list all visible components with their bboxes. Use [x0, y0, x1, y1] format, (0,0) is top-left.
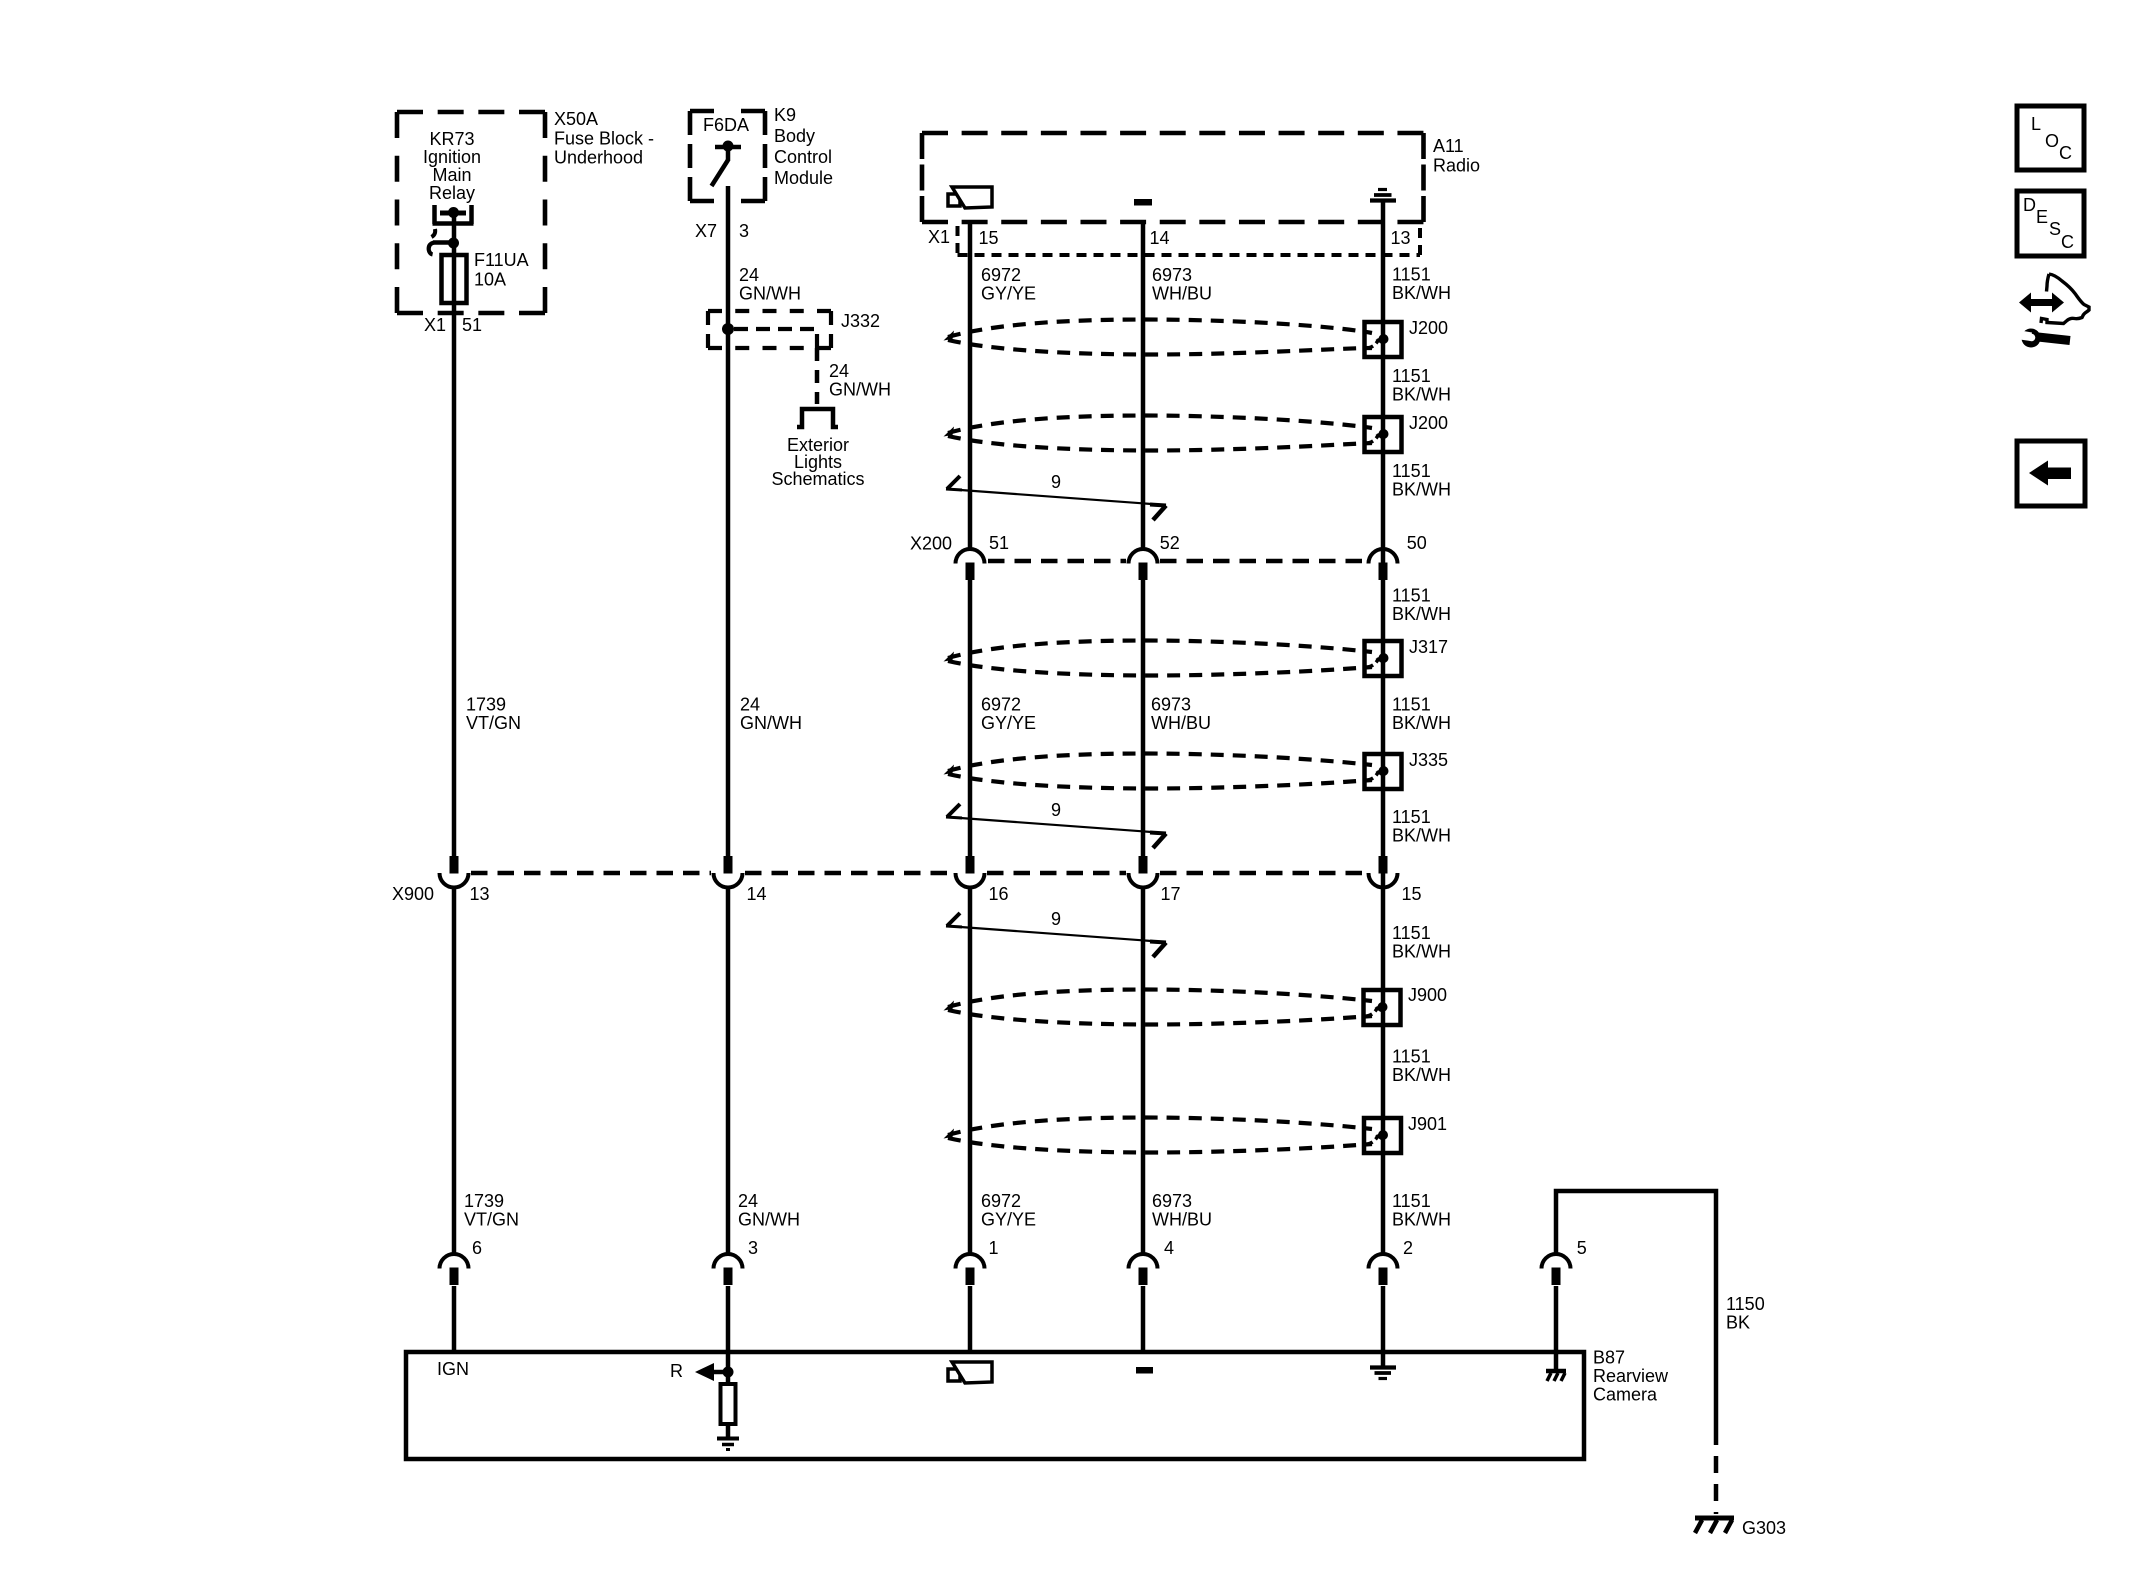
svg-text:15: 15 [979, 228, 999, 248]
svg-text:VT/GN: VT/GN [466, 713, 521, 733]
svg-text:S: S [2049, 219, 2061, 239]
internal pull resistor [726, 1352, 731, 1384]
minus symbol in radio [1134, 199, 1152, 206]
svg-text:X1: X1 [928, 227, 950, 247]
shield loop to J200 (first) [948, 320, 1372, 337]
svg-text:J901: J901 [1408, 1114, 1447, 1134]
DESC navigation icon [2017, 191, 2084, 256]
camera connector pin 6 [440, 1254, 469, 1269]
svg-text:24: 24 [738, 1191, 758, 1211]
dashed branch 24 GN/WH to exterior lights [815, 348, 820, 404]
fuse F11UA 10A [442, 255, 467, 303]
svg-text:J200: J200 [1409, 318, 1448, 338]
inline connector X900 row [471, 871, 711, 876]
svg-text:BK/WH: BK/WH [1392, 942, 1451, 962]
shield loop to J200 (second) [948, 416, 1372, 433]
svg-text:B87: B87 [1593, 1348, 1625, 1368]
svg-text:24: 24 [739, 265, 759, 285]
radio A11 dashed box [922, 131, 1424, 136]
shield loop to J335 [948, 754, 1372, 771]
svg-text:3: 3 [739, 221, 749, 241]
svg-text:G303: G303 [1742, 1518, 1786, 1538]
svg-text:WH/BU: WH/BU [1152, 284, 1212, 304]
splice J332 [708, 309, 831, 313]
X200 pin 51 [956, 549, 985, 564]
wire 24 GN/WH (col2) [726, 186, 731, 856]
svg-text:6: 6 [472, 1238, 482, 1258]
svg-text:C: C [2061, 232, 2074, 252]
X900 pin 15 [1379, 856, 1388, 874]
svg-text:X900: X900 [392, 884, 434, 904]
svg-text:E: E [2036, 207, 2048, 227]
radio connector X1 (dotted) [958, 226, 1421, 255]
camera connector pin 3 [714, 1254, 743, 1269]
svg-text:1739: 1739 [466, 695, 506, 715]
svg-text:3: 3 [748, 1238, 758, 1258]
svg-text:Ignition: Ignition [423, 147, 481, 167]
svg-text:51: 51 [462, 315, 482, 335]
off-page connector: exterior lights schematics [797, 409, 838, 427]
svg-text:1151: 1151 [1392, 1047, 1431, 1067]
wire 6972 GY/YE (col3) middle [968, 578, 973, 857]
svg-text:24: 24 [829, 361, 849, 381]
svg-text:GY/YE: GY/YE [981, 1210, 1036, 1230]
X900 pin 14 [724, 856, 733, 874]
ground symbol in B87 [1381, 1352, 1386, 1368]
svg-text:17: 17 [1161, 884, 1181, 904]
svg-text:F11UA: F11UA [474, 250, 529, 270]
svg-text:X1: X1 [424, 315, 446, 335]
inline connector X200 row [988, 559, 1126, 564]
LOC navigation icon [2017, 106, 2084, 170]
svg-text:R: R [670, 1361, 683, 1381]
wire 1739 VT/GN (col1) [452, 313, 457, 856]
wire loop from pin 5 / 1150 BK [1556, 1191, 1716, 1428]
wire 6972 GY/YE (col3) lower [968, 887, 973, 1254]
svg-text:Control: Control [774, 147, 832, 167]
svg-text:GN/WH: GN/WH [829, 380, 891, 400]
switch F6DA [715, 145, 741, 150]
svg-text:GN/WH: GN/WH [738, 1210, 800, 1230]
X900 pin 17 [1139, 856, 1148, 874]
svg-text:GN/WH: GN/WH [740, 713, 802, 733]
svg-text:6972: 6972 [981, 265, 1021, 285]
splice J200 (first) [1365, 322, 1402, 357]
splice J200 (second) [1365, 417, 1402, 452]
twisted pair marker 9 (second) [947, 804, 960, 817]
svg-text:GY/YE: GY/YE [981, 713, 1036, 733]
wire 6972 GY/YE (col3) top [968, 222, 973, 549]
ground G303 [1695, 1516, 1734, 1521]
X200 pin 50 [1369, 549, 1398, 564]
wire 24 GN/WH (col2) lower [726, 887, 731, 1254]
internal ground [717, 1437, 739, 1441]
svg-text:9: 9 [1051, 800, 1061, 820]
svg-text:K9: K9 [774, 105, 796, 125]
svg-text:Body: Body [774, 126, 815, 146]
svg-text:1739: 1739 [464, 1191, 504, 1211]
svg-text:VT/GN: VT/GN [464, 1210, 519, 1230]
twisted pair marker 9 (third) [947, 913, 960, 926]
svg-text:10A: 10A [474, 269, 506, 289]
svg-text:Underhood: Underhood [554, 148, 643, 168]
svg-text:BK: BK [1726, 1313, 1750, 1333]
wire 6973 WH/BU (col4) top [1141, 222, 1146, 549]
wire 1739 VT/GN (col1) lower [452, 887, 457, 1254]
svg-text:Schematics: Schematics [771, 469, 864, 489]
svg-text:IGN: IGN [437, 1359, 469, 1379]
svg-text:BK/WH: BK/WH [1392, 283, 1451, 303]
svg-text:2: 2 [1403, 1238, 1413, 1258]
splice J900 [1364, 990, 1401, 1025]
svg-text:16: 16 [989, 884, 1009, 904]
svg-text:Relay: Relay [429, 183, 475, 203]
wire 1151 BK/WH (col5) top [1381, 222, 1386, 1254]
svg-text:Fuse Block -: Fuse Block - [554, 128, 654, 148]
svg-text:24: 24 [740, 695, 760, 715]
svg-text:14: 14 [747, 884, 767, 904]
svg-text:15: 15 [1402, 884, 1422, 904]
svg-text:A11: A11 [1433, 136, 1464, 156]
wire 6973 WH/BU (col4) lower [1141, 887, 1146, 1254]
relay KR73 [433, 205, 474, 224]
X200 pin 52 [1129, 549, 1158, 564]
svg-text:X7: X7 [695, 221, 717, 241]
svg-text:X50A: X50A [554, 109, 598, 129]
svg-text:50: 50 [1407, 533, 1427, 553]
svg-text:F6DA: F6DA [703, 115, 749, 135]
shield loop to J900 [948, 990, 1372, 1007]
svg-text:Radio: Radio [1433, 155, 1480, 175]
svg-text:BK/WH: BK/WH [1392, 713, 1451, 733]
svg-text:GY/YE: GY/YE [981, 284, 1036, 304]
svg-text:6972: 6972 [981, 695, 1021, 715]
svg-text:6973: 6973 [1152, 265, 1192, 285]
service/diagnostic icon (car with wrench and arrows) [2019, 293, 2064, 313]
camera connector pin 4 [1129, 1254, 1158, 1269]
svg-text:1151: 1151 [1392, 366, 1431, 386]
svg-text:1151: 1151 [1392, 586, 1431, 606]
shield loop to J901 [948, 1118, 1372, 1135]
svg-text:J317: J317 [1409, 637, 1448, 657]
svg-text:BK/WH: BK/WH [1392, 1065, 1451, 1085]
svg-text:BK/WH: BK/WH [1392, 385, 1451, 405]
svg-text:BK/WH: BK/WH [1392, 1210, 1451, 1230]
svg-text:GN/WH: GN/WH [739, 284, 801, 304]
svg-text:6972: 6972 [981, 1191, 1021, 1211]
svg-text:1151: 1151 [1392, 807, 1431, 827]
svg-text:BK/WH: BK/WH [1392, 604, 1451, 624]
svg-text:Camera: Camera [1593, 1385, 1658, 1405]
svg-text:13: 13 [1391, 228, 1411, 248]
svg-text:9: 9 [1051, 472, 1061, 492]
back arrow icon [2017, 441, 2085, 506]
splice J317 [1365, 641, 1402, 676]
X900 pin 13 [450, 856, 459, 874]
fuse block X50A [397, 110, 545, 115]
svg-text:KR73: KR73 [429, 129, 474, 149]
wire 6973 WH/BU (col4) middle [1141, 578, 1146, 857]
ground symbol in radio [1378, 188, 1387, 191]
svg-text:J200: J200 [1409, 413, 1448, 433]
body control module K9 / F6DA [690, 109, 765, 114]
minus symbol in B87 [1136, 1367, 1153, 1374]
camera connector pin 1 [956, 1254, 985, 1269]
X900 pin 16 [966, 856, 975, 874]
svg-text:52: 52 [1160, 533, 1180, 553]
svg-text:1151: 1151 [1392, 461, 1431, 481]
svg-text:1151: 1151 [1392, 265, 1431, 285]
svg-text:1151: 1151 [1392, 695, 1431, 715]
svg-text:13: 13 [470, 884, 490, 904]
svg-text:1151: 1151 [1392, 1191, 1431, 1211]
svg-text:1151: 1151 [1392, 923, 1431, 943]
svg-text:O: O [2045, 131, 2059, 151]
svg-text:1150: 1150 [1726, 1294, 1765, 1314]
svg-text:4: 4 [1164, 1238, 1174, 1258]
camera connector pin 5 [1542, 1254, 1571, 1269]
svg-text:6973: 6973 [1152, 1191, 1192, 1211]
svg-text:5: 5 [1577, 1238, 1587, 1258]
svg-text:WH/BU: WH/BU [1152, 1210, 1212, 1230]
svg-text:D: D [2023, 195, 2036, 215]
splice J901 [1364, 1118, 1401, 1153]
svg-text:J332: J332 [841, 311, 880, 331]
chassis ground at pin 5 inside B87 [1554, 1352, 1559, 1371]
svg-text:BK/WH: BK/WH [1392, 826, 1451, 846]
svg-text:J900: J900 [1408, 985, 1447, 1005]
shield loop to J317 [948, 641, 1372, 658]
splice J335 [1365, 754, 1402, 789]
svg-text:Module: Module [774, 168, 833, 188]
svg-text:Rearview: Rearview [1593, 1366, 1669, 1386]
svg-text:X200: X200 [910, 534, 952, 554]
svg-text:14: 14 [1150, 228, 1170, 248]
camera symbol in B87 [948, 1369, 960, 1381]
svg-text:51: 51 [989, 533, 1009, 553]
svg-text:1: 1 [989, 1238, 999, 1258]
svg-text:WH/BU: WH/BU [1151, 713, 1211, 733]
rearview camera B87 box [406, 1352, 1584, 1459]
camera connector pin 2 [1369, 1254, 1398, 1269]
svg-text:6973: 6973 [1151, 695, 1191, 715]
camera symbol in radio [948, 194, 960, 206]
svg-text:BK/WH: BK/WH [1392, 480, 1451, 500]
svg-text:J335: J335 [1409, 750, 1448, 770]
twisted pair marker 9 (first) [947, 476, 960, 489]
svg-text:Main: Main [432, 165, 471, 185]
svg-text:9: 9 [1051, 909, 1061, 929]
svg-text:L: L [2031, 114, 2041, 134]
svg-text:C: C [2059, 143, 2072, 163]
